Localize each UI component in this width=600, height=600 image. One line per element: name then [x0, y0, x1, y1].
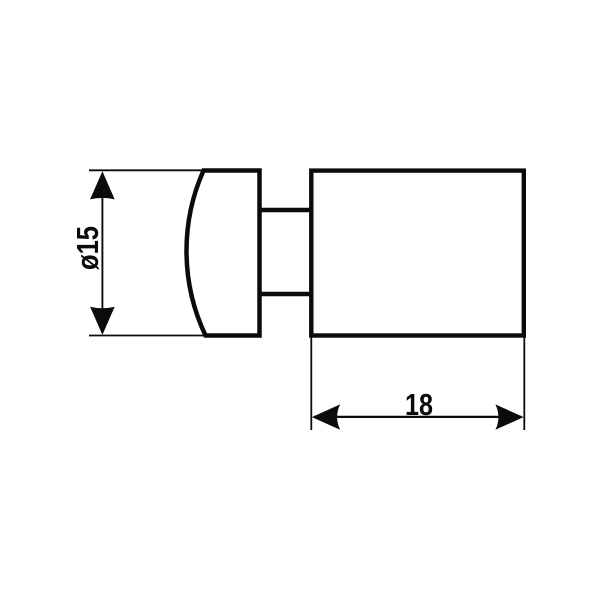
extension line left (18) [310, 338, 312, 431]
extension line top (dia 15) [89, 169, 206, 171]
neck top line [258, 208, 314, 212]
neck bottom line [258, 292, 314, 296]
svg-text:18: 18 [405, 387, 433, 422]
svg-text:ø15: ø15 [70, 226, 105, 270]
extension line right (18) [523, 338, 525, 431]
knob dome head outline [186, 171, 259, 336]
arrowhead right (18 right) [495, 404, 523, 429]
dimension line 18 [314, 416, 522, 418]
extension line bottom (dia 15) [89, 335, 207, 337]
arrowhead down (dia 15 bottom) [90, 307, 115, 335]
body rectangle [311, 171, 524, 336]
dimension line dia 15 [101, 173, 103, 333]
arrowhead up (dia 15 top) [90, 171, 115, 199]
arrowhead left (18 left) [312, 404, 340, 429]
